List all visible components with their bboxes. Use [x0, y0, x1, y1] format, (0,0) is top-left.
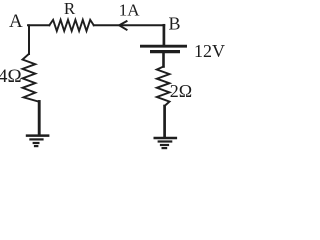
svg-text:12V: 12V — [194, 41, 225, 61]
svg-text:4Ω: 4Ω — [0, 66, 22, 87]
svg-text:B: B — [169, 14, 181, 34]
svg-text:A: A — [9, 11, 23, 32]
svg-text:R: R — [64, 0, 76, 18]
svg-text:2Ω: 2Ω — [170, 81, 192, 101]
svg-text:1A: 1A — [119, 1, 141, 20]
